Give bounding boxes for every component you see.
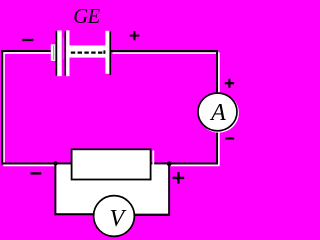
wire right side lower (ammeter to bottom corner) — [217, 131, 219, 166]
battery GE: white band behind dashed link — [70, 45, 107, 57]
wire voltmeter branch left vertical — [54, 163, 56, 215]
wire voltmeter branch right vertical — [168, 164, 170, 216]
ammeter A (circle) — [198, 93, 238, 132]
battery GE: short plate 2 (gray) — [63, 38, 64, 60]
battery GE: long plate 3 (right) — [105, 31, 111, 75]
wire voltmeter branch right horizontal — [134, 214, 170, 216]
battery GE: dashed link between cells — [71, 50, 108, 54]
battery minus label — [22, 39, 33, 41]
svg-text:A: A — [209, 100, 226, 126]
node right junction (resistor right / voltmeter tap) — [167, 161, 172, 166]
battery label GE — [73, 6, 100, 28]
wire bottom (full width) — [1, 164, 219, 166]
white fill region under resistor / above voltmeter — [56, 164, 168, 213]
ammeter plus label — [225, 79, 234, 88]
node left junction (resistor left / voltmeter tap) — [53, 161, 57, 165]
battery plus label — [130, 31, 140, 40]
resistor R (rectangle) — [72, 149, 154, 180]
ammeter minus label — [225, 137, 234, 139]
resistor minus label — [30, 172, 41, 174]
svg-text:V: V — [109, 206, 126, 232]
wire voltmeter branch left horizontal — [54, 213, 95, 215]
battery GE: long plate 1 — [56, 30, 62, 76]
wire top-left (battery minus to left corner) — [1, 51, 51, 53]
wire right side upper (corner to ammeter) — [217, 50, 219, 93]
voltmeter V (circle) — [94, 196, 135, 237]
wire left side (vertical) — [2, 50, 4, 166]
resistor plus label — [173, 172, 185, 184]
svg-text:GE: GE — [73, 6, 100, 28]
battery GE: short plate 1 (white) — [51, 44, 56, 61]
wire top-right (battery plus to right corner) — [111, 51, 219, 53]
battery GE: long plate 2 — [65, 30, 70, 76]
